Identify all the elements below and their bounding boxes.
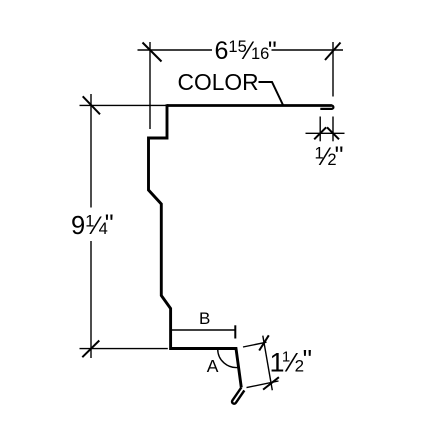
svg-text:COLOR: COLOR (178, 69, 259, 95)
svg-text:A: A (207, 356, 219, 376)
svg-text:11⁄2": 11⁄2" (270, 344, 313, 377)
svg-text:B: B (199, 309, 210, 328)
